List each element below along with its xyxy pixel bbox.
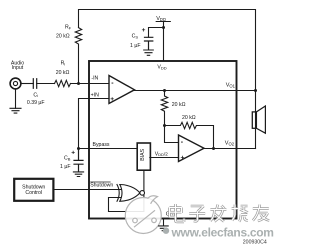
svg-text:20 kΩ: 20 kΩ <box>56 34 70 40</box>
resistor Ri <box>55 80 71 86</box>
node op1 out junction <box>163 89 166 92</box>
svg-text:CB: CB <box>64 156 71 162</box>
svg-text:+: + <box>181 155 185 162</box>
capacitor CB <box>74 149 83 172</box>
svg-text:+: + <box>142 27 146 34</box>
svg-text:VDD: VDD <box>156 16 166 22</box>
svg-text:+IN: +IN <box>91 93 99 99</box>
svg-text:1 µF: 1 µF <box>130 43 140 49</box>
wire +IN to bypass node <box>79 99 110 149</box>
capacitor Ci <box>33 79 36 89</box>
svg-text:Input: Input <box>12 65 24 71</box>
wire Ci to Ri <box>37 83 55 85</box>
wire op1 output VO1 <box>135 90 256 92</box>
node R3/R4 junction <box>163 124 166 127</box>
svg-text:20 kΩ: 20 kΩ <box>172 102 186 108</box>
label shutdown overline <box>90 181 110 183</box>
svg-text:VDD: VDD <box>157 65 166 71</box>
ground (input jack) <box>10 108 21 113</box>
ground (CB) <box>73 172 83 177</box>
svg-text:Ci: Ci <box>33 92 38 98</box>
resistor R4 20k horizontal <box>165 122 214 148</box>
op-amp U1B <box>179 135 205 162</box>
glyph fa <box>210 205 226 222</box>
resistor R3 20k vertical <box>161 91 167 126</box>
node junction RF/Ri <box>77 82 80 85</box>
ground (CS) <box>144 50 154 55</box>
svg-text:CS: CS <box>132 34 139 40</box>
BIAS block <box>137 143 150 170</box>
wire to op2 inverting input <box>165 126 179 143</box>
svg-text:VO1: VO1 <box>226 82 236 88</box>
svg-text:www.elecfans.com: www.elecfans.com <box>171 226 274 240</box>
glyph zi <box>189 206 205 221</box>
ground (IC GND) <box>159 226 169 231</box>
watermark text row 1 <box>170 204 270 222</box>
wire top feedback rail <box>79 10 256 91</box>
glyph dian <box>170 204 185 222</box>
svg-text:-IN: -IN <box>91 76 98 82</box>
capacitor CS <box>145 37 153 49</box>
svg-text:200930C4: 200930C4 <box>243 239 267 245</box>
wire VDD to CS <box>149 28 164 38</box>
node op2 out junction <box>212 147 215 150</box>
svg-text:20 kΩ: 20 kΩ <box>56 70 70 76</box>
wire bypass to BIAS <box>79 148 138 150</box>
svg-text:+: + <box>110 96 114 103</box>
svg-text:20 kΩ: 20 kΩ <box>182 115 196 121</box>
node VDD/CS junction <box>162 26 165 29</box>
glyph shao <box>232 205 248 222</box>
svg-text:VDD/2: VDD/2 <box>155 151 169 157</box>
IC box <box>89 61 237 219</box>
audio input jack J1 <box>10 78 21 89</box>
svg-text:-: - <box>111 80 114 87</box>
svg-text:BIAS: BIAS <box>140 148 146 160</box>
svg-text:Ri: Ri <box>61 61 66 67</box>
svg-text:1 µF: 1 µF <box>60 164 70 170</box>
wire Ri to -IN <box>71 83 110 85</box>
node VO1 speaker junction <box>254 89 257 92</box>
svg-text:+: + <box>71 150 75 157</box>
svg-text:Shutdown: Shutdown <box>90 182 113 188</box>
svg-text:0.39 µF: 0.39 µF <box>27 100 45 106</box>
wire BIAS to op2 +in <box>150 157 179 159</box>
wire jack to Ci <box>21 83 33 85</box>
wire op2 output VO2 <box>204 148 256 150</box>
svg-text:RF: RF <box>65 25 72 31</box>
op-amp U1A <box>109 76 135 104</box>
svg-text:Bypass: Bypass <box>93 142 110 148</box>
svg-text:VO2: VO2 <box>225 141 235 147</box>
svg-text:Control: Control <box>25 190 42 196</box>
shutdown control box <box>14 179 53 201</box>
watermark logo <box>125 196 161 234</box>
shutdown gate G1 (XNOR) <box>120 185 140 202</box>
GND pin wire <box>163 219 165 226</box>
watermark text row 2 <box>163 226 274 240</box>
VDD rail <box>156 22 170 61</box>
wire shutdown control to gate <box>54 189 121 191</box>
svg-text:-: - <box>181 139 184 146</box>
wire BIAS bottom to gate output <box>109 171 144 212</box>
glyph you <box>253 205 269 222</box>
speaker LS1 <box>252 112 256 128</box>
node bypass junction <box>77 147 80 150</box>
wire speaker feed <box>255 91 257 149</box>
resistor RF <box>75 28 81 84</box>
